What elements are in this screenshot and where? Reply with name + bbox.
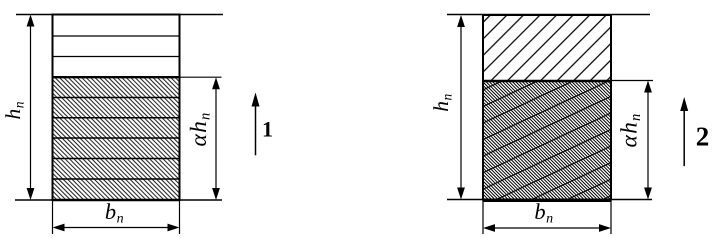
dimension h_n bottom arrow	[27, 188, 35, 200]
dimension alpha-h_n top arrow	[212, 77, 220, 89]
masonry course line 3	[53, 97, 180, 99]
dimension h_n line	[460, 20, 462, 195]
svg-text:2: 2	[696, 122, 710, 152]
upper diagonal hatched zone	[484, 16, 610, 80]
section outline rectangle	[483, 15, 611, 200]
compressed zone boundary line	[53, 76, 180, 78]
b_n extension line left	[52, 201, 54, 235]
svg-text:1: 1	[262, 117, 273, 142]
label alpha-h_n	[186, 112, 214, 147]
label alpha-h_n	[617, 113, 645, 148]
top reference line	[447, 14, 650, 16]
thick bottom edge of section	[53, 199, 180, 202]
dimension alpha-h_n line	[647, 85, 649, 195]
dimension b_n right arrow	[168, 224, 180, 232]
b_n extension line left	[482, 200, 484, 234]
label h_n	[1, 101, 27, 120]
extension line for alpha-h_n	[180, 76, 222, 78]
dimension h_n bottom arrow	[457, 188, 465, 200]
b_n extension line right	[179, 201, 181, 235]
dimension b_n left arrow	[483, 224, 495, 232]
masonry course line 6	[53, 158, 180, 160]
dimension h_n top arrow	[457, 15, 465, 27]
dimension b_n right arrow	[599, 224, 611, 232]
load direction arrow 2	[683, 109, 685, 166]
label h_n	[429, 93, 455, 112]
masonry course line 5	[53, 137, 180, 139]
dimension b_n line	[58, 227, 174, 229]
bottom reference line	[447, 199, 652, 201]
top reference line	[16, 14, 223, 16]
extension line for alpha-h_n	[611, 80, 653, 82]
hatched compressed zone fill	[54, 77, 179, 199]
compressed zone boundary line	[483, 80, 611, 82]
section outline rectangle	[53, 15, 180, 201]
dimension b_n left arrow	[53, 224, 65, 232]
dimension alpha-h_n top arrow	[644, 81, 652, 93]
dimension h_n top arrow	[27, 15, 35, 27]
masonry course line 2	[53, 56, 180, 58]
lower thick diagonal overlay	[484, 81, 610, 199]
bottom reference line	[15, 199, 222, 201]
b_n extension line right	[610, 200, 612, 234]
dimension h_n line	[30, 20, 32, 196]
dimension alpha-h_n bottom arrow	[212, 188, 220, 200]
masonry course line 1	[53, 35, 180, 37]
masonry course line 4	[53, 117, 180, 119]
masonry course line 7	[53, 178, 180, 180]
load direction arrow 1	[255, 104, 257, 155]
dimension alpha-h_n bottom arrow	[644, 188, 652, 200]
thick bottom edge of section	[483, 199, 611, 202]
dimension alpha-h_n line	[215, 82, 217, 196]
dimension b_n line	[489, 227, 605, 229]
